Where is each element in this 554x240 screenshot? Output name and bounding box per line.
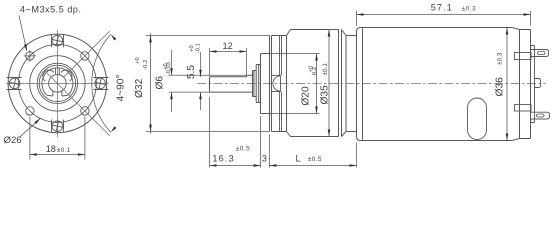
svg-text:L: L (296, 154, 301, 164)
terminal top block (515, 53, 532, 60)
dim 5.5 arrow lines (200, 52, 202, 110)
ring B chamfer (342, 30, 347, 137)
shaft circle (49, 75, 67, 93)
svg-text:57.1: 57.1 (431, 2, 453, 12)
diagonal centerline up-right (64, 31, 110, 77)
arrow 16.3 left (210, 164, 217, 167)
screw right (95, 78, 106, 89)
crown left lobe (43, 70, 54, 81)
svg-text:Ø35: Ø35 (320, 85, 331, 105)
svg-text:4~M3x5.5 dp.: 4~M3x5.5 dp. (20, 4, 81, 14)
arrow O35 top (328, 30, 331, 37)
svg-text:±0.5: ±0.5 (236, 146, 250, 153)
crown top channel (56, 68, 60, 75)
svg-text:3: 3 (262, 154, 267, 164)
screw top (52, 35, 63, 46)
svg-text:-0.2: -0.2 (312, 67, 318, 77)
ring B joint (341, 30, 343, 137)
shaft exit pocket (272, 75, 281, 91)
leader O26 (20, 118, 41, 137)
arrow 12 left (210, 50, 217, 53)
chamfer to main body (287, 30, 291, 137)
dim 12 line (210, 51, 247, 53)
dim 3 ext line (269, 135, 271, 168)
svg-text:±0.1: ±0.1 (57, 147, 71, 154)
dim O32 ext lines (146, 36, 270, 132)
svg-text:Ø32: Ø32 (134, 78, 145, 98)
dim 57.1 line (357, 14, 531, 16)
dim O6 arrow lines (171, 50, 173, 112)
M3 hole lower-left (26, 107, 34, 115)
svg-text:Ø20: Ø20 (301, 86, 312, 106)
crown right lobe (61, 70, 72, 81)
ring inner (39, 65, 75, 101)
terminal bottom block (515, 105, 532, 112)
dim 18 ext lines (30, 117, 85, 160)
arrow O36 bottom (506, 134, 509, 141)
dim O35 line (328, 30, 330, 137)
svg-text:±0.3: ±0.3 (497, 52, 504, 65)
boss small (253, 71, 257, 97)
arrow 57.1 right (524, 13, 531, 16)
dim O20 line (316, 54, 318, 114)
screw top pocket (52, 35, 64, 47)
svg-text:-0.1: -0.1 (196, 43, 202, 53)
flange outer circle (8, 34, 107, 133)
arrow O35 bottom (328, 130, 331, 137)
svg-text:+0: +0 (135, 57, 141, 64)
svg-text:Ø6: Ø6 (154, 76, 165, 90)
bearing bump (535, 79, 541, 88)
dim 16.3 line (210, 165, 261, 167)
screw left (9, 78, 20, 89)
dim 12 ext lines (210, 48, 247, 76)
dim O6 ext lines (169, 75, 247, 92)
svg-text:-0.2: -0.2 (143, 60, 149, 70)
dim L line (270, 165, 357, 167)
svg-text:-0.03: -0.03 (166, 62, 172, 75)
svg-text:±0.1: ±0.1 (322, 63, 329, 76)
svg-text:5.5: 5.5 (186, 65, 197, 79)
arrow O32 bottom (149, 125, 152, 132)
vertical centerline (57, 30, 59, 137)
arrow 5.5 bottom outside (199, 92, 202, 99)
svg-text:16.3: 16.3 (212, 153, 234, 163)
M3 hole upper-right (81, 52, 89, 60)
arrow L right (350, 164, 357, 167)
shaft outline (210, 75, 253, 92)
end cap small disc (531, 46, 535, 123)
svg-text:±0.3: ±0.3 (462, 6, 476, 13)
dim 16.3 ext lines (210, 97, 261, 168)
bolt circle (18, 44, 96, 122)
arrow 18 right (78, 153, 85, 156)
arc dim 4~90 (92, 34, 111, 132)
arrow 12 right (240, 50, 247, 53)
boss step2 (256, 65, 260, 103)
terminal bottom tab (531, 112, 550, 119)
arrow arc bottom (111, 126, 117, 132)
svg-text:18: 18 (46, 144, 56, 154)
arrow O36 top (506, 28, 509, 35)
disc front face (261, 54, 270, 114)
motor body (361, 28, 520, 141)
svg-text:Ø36: Ø36 (495, 77, 506, 97)
end cap front line (519, 30, 521, 139)
motor face (357, 28, 361, 141)
arrow L left (270, 164, 277, 167)
arrow O32 top (149, 36, 152, 43)
dim O36 line (506, 28, 508, 141)
leader 4~M3 (19, 16, 27, 51)
svg-text:Ø26: Ø26 (4, 135, 22, 146)
dim L ext line (356, 143, 358, 168)
svg-text:12: 12 (223, 41, 233, 51)
screw bottom (52, 121, 63, 132)
dim 18 line (30, 154, 85, 156)
svg-text:4~90°: 4~90° (116, 74, 127, 101)
flange joint lines (270, 36, 272, 132)
svg-text:±0.5: ±0.5 (308, 156, 322, 163)
arrow O6 top outside (170, 68, 173, 75)
arrow arc top (111, 34, 117, 40)
arrow 18 left (30, 153, 37, 156)
gearbox front section (272, 36, 287, 132)
arrow O20 top (315, 54, 318, 61)
arrow leader O26 (34, 118, 40, 124)
neck (346, 36, 357, 132)
crown right foot (62, 88, 72, 96)
dim O20 ext lines (262, 54, 320, 114)
M3 hole upper-left (26, 52, 34, 60)
gearbox main body (291, 30, 339, 137)
arrow O6 bottom outside (170, 92, 173, 99)
vent oval (468, 98, 487, 140)
arrow 5.5 top outside (199, 70, 202, 77)
screw bottom pocket (52, 120, 64, 132)
arrow O20 bottom (315, 107, 318, 114)
dim O32 line (150, 34, 152, 134)
dim 57.1 ext lines (357, 11, 531, 27)
horizontal centerline (7, 83, 109, 85)
terminal top hole (538, 52, 546, 55)
crown notch (53, 91, 62, 96)
arrow 57.1 left (357, 13, 364, 16)
crown left foot (43, 88, 53, 96)
arrow 16.3 right (254, 164, 261, 167)
screw left pocket (7, 78, 22, 90)
terminal bottom hole (537, 114, 545, 117)
ring gear joint (280, 36, 282, 132)
screw right pocket (94, 78, 109, 90)
svg-text:+0: +0 (189, 45, 195, 52)
M3 hole lower-right (81, 107, 89, 115)
crown outer arc (42, 68, 73, 88)
arrow leader M3 (24, 44, 27, 51)
ring outer (37, 63, 77, 103)
terminal top tab (531, 50, 549, 57)
face circle (30, 56, 85, 111)
motor crimp (362, 28, 364, 140)
end cap rear line (520, 30, 531, 139)
diagonal centerline down-right (47, 73, 110, 136)
axis centerline (197, 83, 546, 85)
